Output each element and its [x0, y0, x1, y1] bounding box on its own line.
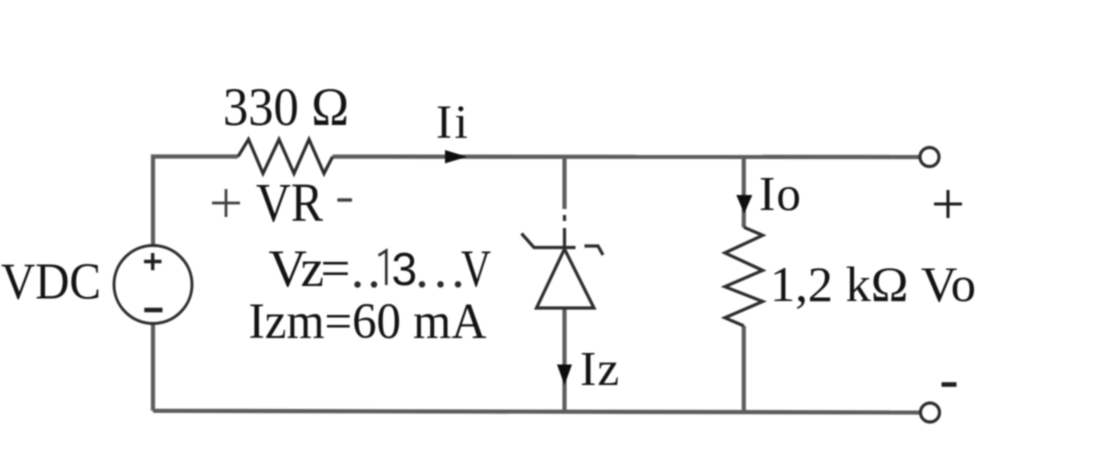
plus sign inside source — [144, 253, 162, 270]
svg-text:1,2 kΩ Vo: 1,2 kΩ Vo — [770, 256, 976, 312]
zener cathode bar with left hook — [522, 234, 576, 248]
digit 1 handwritten — [379, 251, 387, 286]
plus sign output — [934, 190, 962, 218]
terminal bottom right — [921, 403, 940, 422]
arrow Io — [736, 195, 752, 214]
wire bottom rail — [153, 411, 921, 413]
zener diode D1 triangle — [537, 249, 595, 308]
wire zener branch top — [562, 157, 566, 210]
minus sign of VR — [337, 198, 352, 201]
svg-text:V: V — [461, 240, 491, 298]
svg-text:Izm=60 mA: Izm=60 mA — [249, 294, 487, 350]
wire zener branch into cathode — [563, 228, 566, 249]
wire load branch bottom — [742, 326, 746, 412]
wire zener branch bottom — [562, 308, 566, 412]
resistor R1 330 ohm zigzag — [238, 139, 333, 173]
minus sign inside source — [144, 308, 162, 312]
svg-text:Ii: Ii — [436, 96, 470, 149]
svg-text:Vz=: Vz= — [269, 240, 351, 298]
arrow Iz — [557, 365, 572, 386]
svg-text:VR: VR — [256, 172, 323, 233]
svg-text:3: 3 — [392, 243, 418, 295]
wire left vertical below source — [151, 324, 155, 411]
svg-text:330 Ω: 330 Ω — [223, 77, 349, 137]
wire zener branch dash — [563, 215, 566, 221]
minus sign output — [942, 382, 957, 387]
terminal top right — [920, 148, 939, 167]
dots before V — [419, 281, 425, 287]
svg-text:Iz: Iz — [580, 341, 620, 396]
arrow Ii — [445, 150, 467, 163]
voltage source VDC circle — [114, 246, 192, 324]
svg-text:Io: Io — [759, 166, 802, 221]
dots after equals — [354, 281, 360, 287]
wire load branch top — [742, 157, 746, 227]
wire top-left: source up to top rail towards resistor — [153, 157, 238, 248]
resistor RL 1.2k zigzag — [725, 227, 763, 326]
wire top rail to output terminal — [333, 155, 920, 160]
svg-text:VDC: VDC — [1, 254, 101, 311]
plus sign of VR — [212, 189, 240, 217]
zener cathode bar right hook — [585, 246, 604, 255]
